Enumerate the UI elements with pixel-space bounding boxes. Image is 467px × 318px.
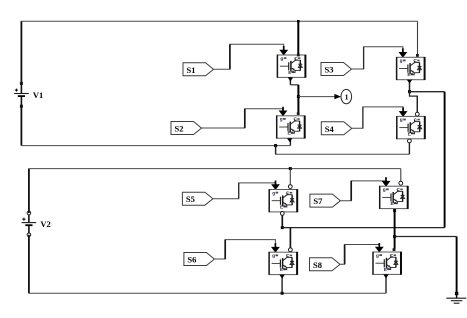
wire S5 to Q5 gate xyxy=(213,183,275,199)
IGBT/Diode block Q7 xyxy=(380,186,408,209)
port + xyxy=(20,82,23,85)
port Q1 emitter xyxy=(288,77,293,81)
IGBT/Diode block Q5 xyxy=(269,189,297,212)
port Q1 collector xyxy=(297,54,300,57)
svg-text:g: g xyxy=(272,191,275,196)
ground xyxy=(446,292,466,303)
wire V2+ riser xyxy=(28,169,30,213)
wire S3 to Q3 gate xyxy=(352,47,403,69)
gate arrowhead Q8 xyxy=(375,247,384,253)
IGBT/Diode block Q4 xyxy=(397,116,425,139)
wire S4 to Q4 gate xyxy=(352,107,403,128)
signal tag S6 xyxy=(184,253,215,266)
wire bottom bus bridge2 xyxy=(29,292,387,294)
wire top bus bridge1 xyxy=(21,20,418,22)
gate arrowhead Q7 xyxy=(382,181,391,187)
svg-text:1: 1 xyxy=(345,92,349,101)
wire to Q4 collector v xyxy=(416,96,418,114)
svg-text:g: g xyxy=(272,254,275,259)
svg-text:g: g xyxy=(400,59,403,64)
wire S8 to Q8 gate xyxy=(340,245,379,265)
gate arrowhead Q4 xyxy=(399,111,408,117)
junction bottom bus 2 xyxy=(281,292,284,295)
port Q4 collector xyxy=(415,112,419,116)
port Q6 emitter xyxy=(279,275,284,279)
svg-text:g: g xyxy=(400,118,403,123)
wire S7 vertical xyxy=(350,181,352,201)
wire S2 to Q2 gate xyxy=(200,109,283,128)
port Q5 collector xyxy=(288,185,292,189)
wire S7 to Q7 gate xyxy=(340,181,386,201)
svg-text:g: g xyxy=(280,57,283,62)
wire Q7 emitter to Q8 collector xyxy=(394,209,396,250)
IGBT/Diode block Q6 xyxy=(269,252,297,275)
wire Q1 emitter xyxy=(289,77,291,84)
wire jog xyxy=(290,84,298,86)
signal tag S2 xyxy=(171,122,202,135)
port Q7 collector xyxy=(399,181,403,185)
port - xyxy=(20,105,23,108)
wire drop to Q7 collector xyxy=(400,169,402,182)
svg-text:S5: S5 xyxy=(186,194,195,204)
svg-text:S4: S4 xyxy=(325,124,335,134)
svg-text:V1: V1 xyxy=(33,90,43,100)
wire V1+ riser xyxy=(20,21,22,83)
svg-text:V2: V2 xyxy=(40,219,50,229)
signal tag S1 xyxy=(183,63,214,76)
junction node B xyxy=(408,90,411,93)
gate arrowhead Q6 xyxy=(271,247,280,253)
wire S2 vertical xyxy=(244,109,246,128)
signal tag S7 xyxy=(310,194,341,207)
port Q4 emitter xyxy=(408,139,412,143)
wire to Q2 collector xyxy=(297,85,299,114)
wire drop to Q5 collector xyxy=(289,169,291,186)
wire S6 to Q6 gate xyxy=(215,240,276,259)
svg-text:S2: S2 xyxy=(175,124,184,134)
port Q3 emitter xyxy=(407,80,412,84)
junction top bus 2 xyxy=(289,167,292,170)
wire S5 vertical xyxy=(238,183,240,199)
wire S6 vertical xyxy=(224,240,226,259)
wire ground vertical xyxy=(456,237,458,294)
wire V2- drop xyxy=(28,235,30,293)
wire S3 vertical xyxy=(363,47,365,69)
wire S4 vertical xyxy=(362,107,364,128)
wire S1 vertical xyxy=(229,44,231,69)
wire drop to Q3 collector xyxy=(417,21,419,55)
IGBT/Diode block Q3 xyxy=(397,57,425,80)
signal tag S4 xyxy=(321,122,352,135)
svg-text:S8: S8 xyxy=(313,260,322,270)
wire Q6 emitter drop xyxy=(281,276,283,294)
gate arrowhead Q2 xyxy=(279,111,288,117)
wire drop to Q1 collector xyxy=(297,21,299,54)
junction bottom bus xyxy=(274,144,277,147)
svg-text:S7: S7 xyxy=(313,196,323,206)
port Q2 collector xyxy=(297,112,300,115)
wire cascade horizontal xyxy=(282,227,444,229)
wire Q3 emitter xyxy=(409,80,411,92)
port Q8 collector xyxy=(393,248,396,251)
svg-text:S1: S1 xyxy=(187,65,196,75)
wire S8 vertical xyxy=(344,245,346,265)
port Q2 emitter xyxy=(287,138,292,142)
wire Q5 emitter xyxy=(281,212,283,228)
gate arrowhead Q3 xyxy=(399,52,408,58)
DC voltage source V2 xyxy=(22,211,51,236)
port Q5 emitter xyxy=(280,212,284,216)
junction node A xyxy=(297,95,300,98)
wire Q2 emitter drop xyxy=(289,139,291,145)
signal tag S5 xyxy=(182,192,213,205)
port + xyxy=(27,211,31,215)
IGBT/Diode block Q2 xyxy=(277,116,305,139)
wire Q4 emitter return xyxy=(276,146,410,155)
junction cascade xyxy=(281,226,284,229)
port Q6 collector xyxy=(289,248,293,252)
wire bottom bus bridge1 xyxy=(21,145,290,147)
svg-text:g: g xyxy=(280,118,283,123)
svg-text:g: g xyxy=(376,254,379,259)
junction top bus xyxy=(297,20,300,23)
wire cascade vertical xyxy=(444,92,446,228)
svg-text:S3: S3 xyxy=(325,65,334,75)
port - xyxy=(27,233,31,237)
IGBT/Diode block Q1 xyxy=(277,55,305,78)
wire V1- drop xyxy=(20,106,22,145)
port Q8 emitter xyxy=(383,274,388,278)
wire Q8 emitter drop xyxy=(385,276,387,293)
wire top bus bridge2 xyxy=(29,168,401,170)
junction ground link xyxy=(393,235,396,238)
wire S1 to Q1 gate xyxy=(214,44,284,69)
svg-text:S6: S6 xyxy=(187,255,196,265)
port Q3 collector xyxy=(416,54,419,57)
gate arrowhead Q1 xyxy=(279,50,288,56)
signal tag S3 xyxy=(321,63,352,76)
wire jog down xyxy=(275,146,277,155)
wire to Q6 collector xyxy=(289,228,291,250)
port Q7 emitter xyxy=(393,209,396,212)
signal tag S8 xyxy=(310,258,341,271)
output port 1 xyxy=(334,89,351,103)
wire cascade out xyxy=(410,91,445,93)
svg-text:g: g xyxy=(383,188,386,193)
IGBT/Diode block Q8 xyxy=(373,252,401,275)
wire to ground xyxy=(395,236,457,238)
DC voltage source V1 xyxy=(14,82,43,108)
wire to output port xyxy=(298,96,335,98)
gate arrowhead Q5 xyxy=(271,184,280,190)
wire Q4 emitter riser xyxy=(408,141,410,154)
wire to Q4 collector xyxy=(410,92,418,114)
